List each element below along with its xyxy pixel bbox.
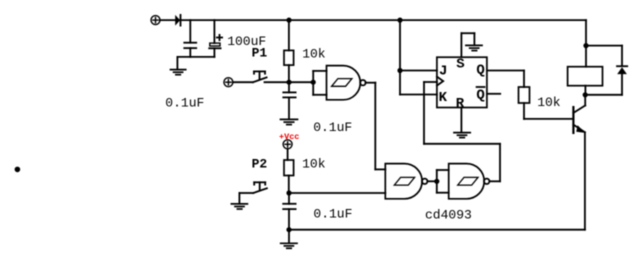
svg-text:cd4093: cd4093: [425, 207, 472, 222]
svg-text:0.1uF: 0.1uF: [165, 95, 204, 110]
svg-text:10k: 10k: [302, 46, 326, 61]
svg-text:Q: Q: [476, 88, 484, 104]
svg-text:+Vcc: +Vcc: [279, 132, 299, 142]
svg-text:J: J: [439, 63, 447, 79]
svg-text:0.1uF: 0.1uF: [313, 120, 352, 135]
svg-text:P1: P1: [252, 46, 268, 61]
svg-text:P2: P2: [252, 157, 268, 172]
svg-text:K: K: [439, 90, 448, 106]
svg-text:0.1uF: 0.1uF: [313, 206, 352, 221]
svg-text:10k: 10k: [302, 157, 326, 172]
svg-text:S: S: [456, 57, 464, 73]
svg-text:Q: Q: [476, 63, 484, 79]
svg-text:R: R: [456, 96, 465, 112]
svg-text:10k: 10k: [537, 95, 561, 110]
